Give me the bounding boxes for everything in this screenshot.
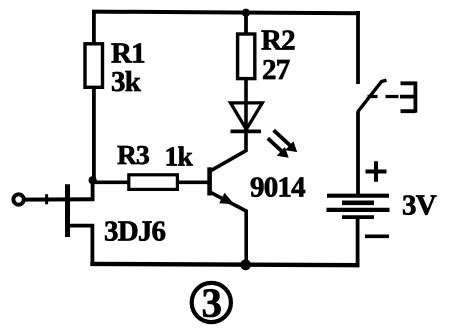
svg-text:1k: 1k	[165, 140, 194, 171]
svg-text:27: 27	[262, 54, 290, 86]
switch S1 arm	[358, 80, 387, 112]
wire right rail lower	[356, 219, 360, 266]
svg-text:R1: R1	[111, 38, 145, 70]
switch S1 dashed link	[368, 95, 399, 98]
node top junction dot	[242, 9, 250, 17]
svg-text:3V: 3V	[402, 190, 437, 222]
battery minus sign	[365, 235, 389, 239]
wire R2 top lead	[244, 12, 248, 36]
svg-text:R2: R2	[261, 24, 295, 56]
transistor Q1 emitter lead	[211, 192, 247, 265]
JFET Q2 drain lead	[91, 180, 95, 201]
JFET Q2 source lead	[68, 226, 93, 264]
node A junction dot	[89, 176, 97, 184]
switch S1 actuator bracket	[400, 82, 416, 113]
LED light arrow 1	[274, 130, 298, 152]
wire bottom rail	[90, 264, 359, 265]
battery BT1 plate 3 long	[327, 208, 390, 212]
transistor Q1 emitter arrowhead	[219, 193, 234, 204]
wire left rail upper	[92, 11, 96, 46]
JFET Q2 channel bar	[65, 184, 70, 237]
transistor Q1 collector lead	[211, 129, 247, 171]
svg-text:9014: 9014	[250, 172, 305, 204]
LED D1 cathode bar	[231, 130, 262, 134]
battery BT1 plate 1 long	[327, 194, 389, 198]
transistor Q1 base bar	[207, 167, 212, 195]
svg-text:3k: 3k	[111, 66, 142, 98]
LED D1 anode wire	[244, 78, 248, 131]
LED D1 triangle	[231, 103, 263, 129]
LED light arrow 2	[268, 138, 289, 158]
svg-text:R3: R3	[117, 139, 149, 170]
wire right rail upper	[356, 11, 360, 84]
input terminal circle	[13, 194, 23, 204]
resistor R3	[129, 175, 178, 190]
node bottom junction dot	[240, 259, 251, 270]
wire left rail lower	[92, 87, 96, 181]
resistor R2	[238, 34, 255, 79]
wire node to R3	[92, 181, 130, 185]
wire top rail	[92, 12, 360, 14]
svg-text:3: 3	[201, 280, 221, 326]
wire R3 to base	[177, 181, 208, 185]
battery BT1 plate 4 short	[342, 215, 374, 219]
figure number circle 3	[192, 280, 231, 326]
battery plus sign	[366, 161, 387, 181]
input wire tick	[45, 194, 48, 204]
svg-text:3DJ6: 3DJ6	[104, 216, 166, 248]
JFET Q2 gate wire	[24, 197, 95, 201]
wire right rail middle	[356, 112, 360, 196]
battery BT1 plate 2 short	[342, 201, 374, 206]
resistor R1	[85, 44, 103, 88]
